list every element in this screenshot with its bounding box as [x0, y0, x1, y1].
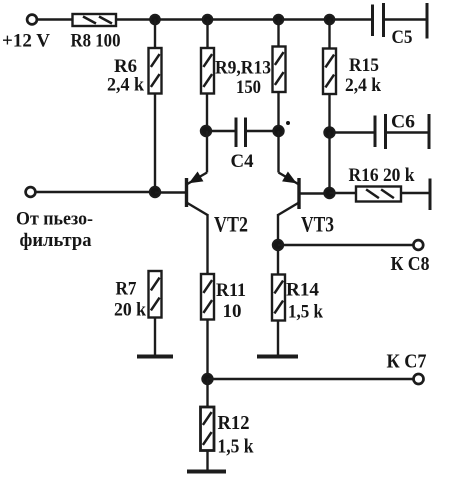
wire R6 to input node	[154, 94, 156, 194]
wire rail down to R15	[328, 20, 330, 49]
svg-text:фильтра: фильтра	[20, 230, 92, 251]
wire R12 to ground	[206, 451, 208, 472]
svg-text:R8 100: R8 100	[71, 31, 121, 52]
terminal K C7	[414, 374, 424, 384]
node top rail B	[203, 15, 212, 24]
wire VT3 collector down to C8 node	[277, 214, 279, 275]
transistor VT3	[278, 173, 330, 216]
svg-text:2,4 k: 2,4 k	[345, 75, 381, 96]
wire C6 node down to R16 node	[328, 133, 330, 194]
svg-text:2,4 k: 2,4 k	[107, 75, 144, 96]
wire R8 to node1	[116, 18, 157, 20]
svg-text:R12: R12	[218, 412, 250, 434]
node top rail A	[150, 15, 159, 24]
svg-text:R14: R14	[286, 280, 319, 301]
ground right	[257, 355, 298, 359]
svg-text:C4: C4	[231, 151, 254, 172]
node C4 left	[201, 126, 211, 136]
wire R14 to ground	[277, 321, 279, 358]
svg-text:C5: C5	[392, 27, 413, 48]
wire VT2 collector down to R11	[206, 214, 208, 274]
wire R9 to C4 node	[206, 94, 208, 132]
terminal input	[26, 187, 36, 197]
wire input to node A	[36, 191, 156, 193]
svg-text:R11: R11	[216, 280, 246, 301]
wire rail down to R6	[154, 20, 156, 49]
svg-text:R7: R7	[116, 279, 137, 300]
terminal +12V	[27, 15, 37, 25]
svg-text:1,5 k: 1,5 k	[218, 436, 255, 458]
terminal K C8	[413, 240, 423, 250]
ground left	[137, 355, 173, 359]
transistor VT2	[187, 173, 208, 216]
resistor R14	[272, 275, 285, 321]
ground bottom	[187, 470, 226, 474]
node VT3 base / R16	[325, 188, 335, 198]
svg-text:R15: R15	[349, 55, 379, 76]
svg-text:20 k: 20 k	[114, 300, 146, 321]
wire R15 to C6 node	[328, 94, 330, 133]
svg-text:От пьезо-: От пьезо-	[16, 209, 93, 230]
node top rail D	[325, 15, 334, 24]
wire R7 to ground	[154, 318, 156, 358]
wire top rail node4 to C5	[330, 18, 373, 20]
svg-text:К С8: К С8	[391, 253, 430, 275]
resistor R16	[330, 179, 431, 211]
svg-text:10: 10	[223, 301, 242, 322]
node top rail C	[274, 15, 283, 24]
wire rail down to R13	[277, 20, 279, 47]
node input junction	[150, 187, 160, 197]
wire R11 to C7 node	[206, 320, 208, 380]
svg-text:VT2: VT2	[214, 212, 248, 237]
svg-text:VT3: VT3	[301, 212, 334, 237]
resistor R7	[149, 271, 162, 318]
wire node A to VT2 base	[155, 191, 185, 193]
node C6	[325, 128, 335, 138]
wire C4 left node down to VT2 emitter	[206, 131, 208, 173]
resistor R6	[149, 48, 162, 94]
resistor R8	[73, 14, 117, 26]
wire R13 to C4 node	[277, 92, 279, 131]
node K C7	[203, 374, 213, 384]
wire node to terminal K C8	[278, 244, 414, 246]
wire rail down to R9	[206, 20, 208, 49]
svg-text:150: 150	[236, 77, 261, 98]
wire C4 right node down to VT3 emitter	[277, 131, 279, 173]
capacitor C4	[206, 118, 279, 148]
resistor R12	[201, 407, 215, 451]
capacitor C6	[330, 114, 430, 149]
speck artifact	[286, 121, 290, 125]
svg-text:+12 V: +12 V	[2, 31, 50, 52]
svg-text:C6: C6	[391, 112, 415, 133]
svg-text:R16 20 k: R16 20 k	[349, 165, 415, 186]
resistor R15	[323, 49, 336, 95]
resistor R13	[273, 47, 286, 93]
resistor R9	[201, 48, 214, 94]
node C4 right	[274, 126, 284, 136]
svg-text:R9,R13: R9,R13	[215, 58, 271, 79]
wire node to terminal K C7	[208, 378, 414, 380]
resistor R11	[201, 274, 214, 320]
svg-text:К С7: К С7	[387, 351, 427, 373]
svg-text:1,5 k: 1,5 k	[288, 302, 323, 323]
capacitor C5	[373, 3, 428, 39]
wire terminal to R8	[37, 18, 73, 20]
node K C8	[273, 240, 283, 250]
wire C7 node down to R12	[206, 379, 208, 407]
wire top rail node1 to node4	[155, 18, 330, 20]
